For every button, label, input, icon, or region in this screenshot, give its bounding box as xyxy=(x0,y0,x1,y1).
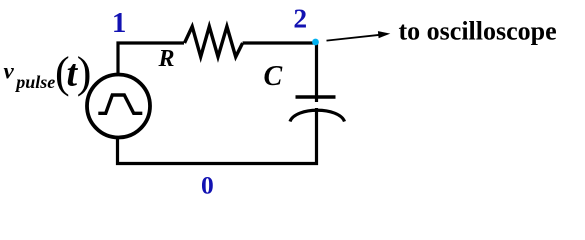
wire: node 1 corner, source top lead xyxy=(118,43,184,75)
svg-text:1: 1 xyxy=(112,7,127,39)
pulse waveform symbol xyxy=(98,95,142,113)
arrow to oscilloscope xyxy=(327,31,391,40)
svg-text:pulse: pulse xyxy=(14,72,55,92)
svg-text:): ) xyxy=(77,48,92,97)
label: v pulse (t) xyxy=(4,48,92,97)
svg-text:R: R xyxy=(158,46,175,72)
wire: curved plate to bottom rail to source bottom lead xyxy=(118,108,317,164)
resistor R xyxy=(185,27,243,57)
capacitor C top plate xyxy=(296,95,336,98)
node 2 probe dot xyxy=(312,39,319,46)
wire: resistor to node 2 xyxy=(243,41,317,44)
capacitor C curved plate xyxy=(290,110,345,121)
wire: node 2 down through capacitor top plate xyxy=(315,43,318,102)
voltage source circle xyxy=(87,75,150,138)
svg-text:0: 0 xyxy=(201,170,214,199)
svg-text:2: 2 xyxy=(293,2,307,33)
svg-text:v: v xyxy=(4,59,15,84)
svg-text:C: C xyxy=(264,61,283,92)
svg-text:to oscilloscope: to oscilloscope xyxy=(399,17,557,46)
